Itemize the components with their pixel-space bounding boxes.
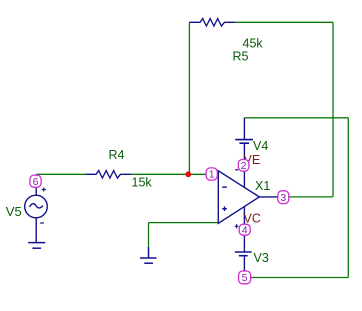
resistor R5 — [189, 19, 235, 26]
battery V4 — [235, 118, 253, 170]
node 3 — [278, 191, 289, 204]
svg-text:5: 5 — [242, 272, 248, 284]
wire: right edge vertical from V4 wire down to node 5 wire — [347, 118, 349, 278]
svg-text:X1: X1 — [255, 179, 270, 193]
svg-text:15k: 15k — [132, 176, 153, 190]
svg-text:4: 4 — [242, 224, 248, 236]
svg-text:2: 2 — [241, 160, 247, 172]
node 5 — [239, 271, 251, 284]
ground for V5 — [28, 243, 45, 249]
source V5 — [25, 174, 48, 242]
svg-text:VC: VC — [244, 212, 261, 226]
svg-text:6: 6 — [33, 176, 39, 188]
svg-text:V4: V4 — [253, 139, 268, 153]
ground for non-inverting input — [140, 247, 157, 263]
node 4 — [239, 224, 250, 236]
wire: feedback right vertical from top corner down to output wire — [332, 22, 334, 197]
svg-text:3: 3 — [280, 192, 286, 204]
node 6 — [30, 175, 41, 188]
svg-text:45k: 45k — [243, 37, 264, 51]
wire: V5 node 6 to R4 left lead — [36, 173, 86, 175]
junction dot at inverting input node — [185, 171, 191, 177]
svg-text:R5: R5 — [233, 50, 249, 64]
wire: top feedback wire from R5 right lead to right corner — [235, 21, 333, 23]
svg-text:R4: R4 — [109, 148, 125, 162]
node 1 — [206, 168, 217, 181]
wire: V4 top to right edge horizontal — [244, 117, 348, 119]
resistor R4 — [86, 171, 131, 178]
wire: output of node 3 to feedback corner — [289, 196, 333, 198]
svg-text:1: 1 — [209, 169, 215, 181]
wire: vertical from R5 left end down to inverting-input junction — [188, 22, 190, 174]
svg-text:V3: V3 — [254, 251, 269, 265]
wire: R4 right lead to op-amp inverting input — [131, 173, 218, 175]
battery V3 — [235, 224, 252, 271]
wire: vertical drop from non-inverting input wire to ground 2 — [148, 223, 150, 247]
wire: ground to op-amp non-inverting input — [149, 222, 219, 224]
op-amp X1 — [218, 144, 278, 252]
wire: node 5 to right edge horizontal — [251, 277, 349, 279]
node 2 — [238, 160, 249, 173]
svg-text:V5: V5 — [6, 204, 22, 219]
